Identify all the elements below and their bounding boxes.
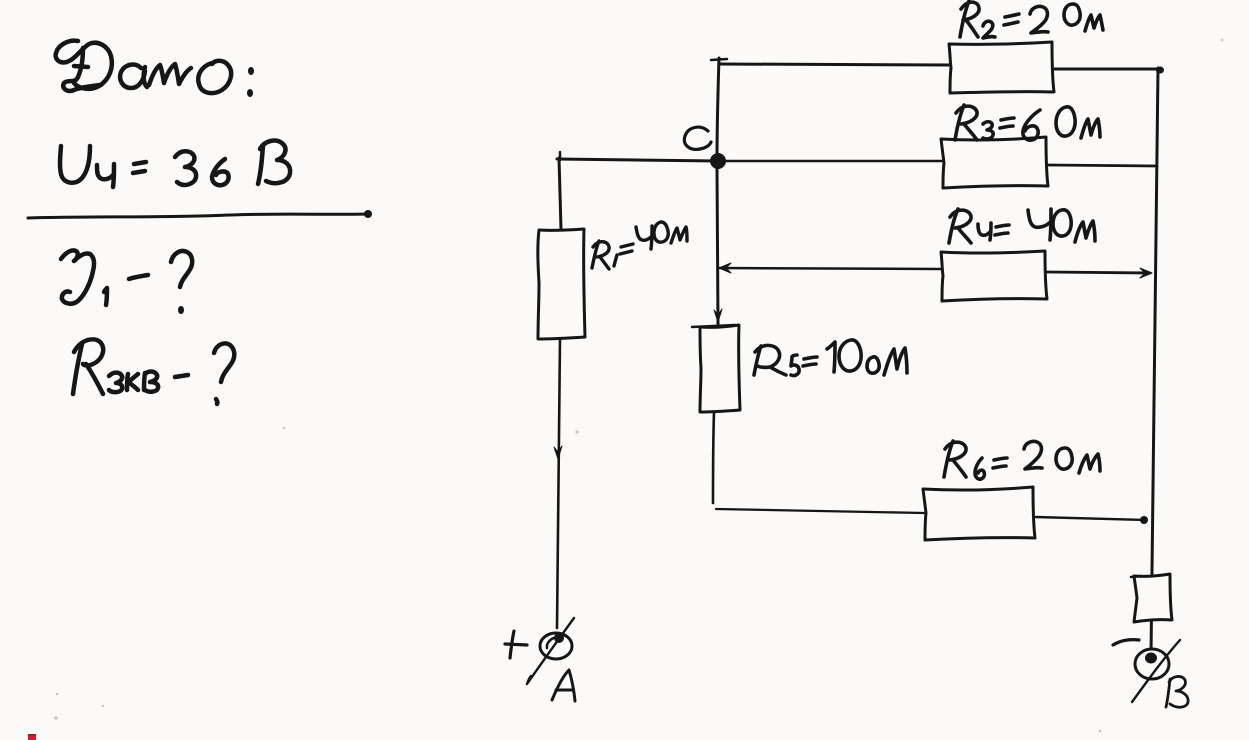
divider line with end dot bbox=[28, 210, 372, 218]
arrowhead at R4 branch left (pointing left) bbox=[719, 263, 731, 273]
resistor R2 box bbox=[949, 42, 1054, 93]
value label R2 = 2 Om bbox=[960, 1, 1103, 38]
unknown I1 - ? bbox=[61, 250, 192, 314]
resistor R5 box bbox=[700, 325, 740, 412]
wire: node C to left corner bbox=[557, 159, 718, 161]
label A bbox=[552, 670, 575, 701]
given-block equation U4 = 36 V bbox=[60, 141, 290, 187]
given-block word "Dano:" bbox=[56, 41, 254, 97]
terminal A slash bbox=[527, 618, 574, 684]
label B bbox=[1166, 676, 1188, 707]
dot at R6 wire right end bbox=[1140, 516, 1148, 524]
wire: R4 right to right rail with arrowhead bbox=[1047, 272, 1150, 273]
value label R3 = 6 Om bbox=[955, 105, 1100, 140]
terminal A circle bbox=[540, 633, 572, 659]
wire: R1 bottom to terminal A bbox=[557, 339, 560, 628]
terminal B slash bbox=[1132, 640, 1180, 702]
arrowhead on middle column (downward) bbox=[714, 309, 722, 322]
wire: R4 branch from middle column bbox=[719, 268, 941, 269]
unknown Rekv - ? bbox=[73, 339, 234, 404]
terminal A center ink blob bbox=[554, 633, 564, 643]
value label R5 = 10 Om bbox=[754, 340, 907, 376]
tick at R5 top bbox=[692, 325, 735, 327]
wire: top horizontal from node-C column to R2 bbox=[719, 64, 949, 65]
wire: R3 branch from node C bbox=[726, 160, 942, 163]
node C junction dot bbox=[710, 153, 726, 169]
arrowhead on A wire (downward) bbox=[554, 446, 562, 459]
wire: node C down the middle column bbox=[717, 169, 718, 324]
wire: top-left vertical (top corner down to node C) bbox=[717, 58, 719, 160]
resistor R4 box bbox=[941, 251, 1047, 301]
value label R1 = 4 Om (rising slope) bbox=[592, 222, 687, 269]
wire: R5 bottom down bbox=[713, 412, 714, 503]
red mark bottom-left bbox=[28, 734, 36, 740]
node C label bbox=[684, 127, 711, 149]
resistor R6 box bbox=[923, 487, 1035, 540]
terminal A inner curl bbox=[547, 637, 557, 648]
small square resistor on right rail bbox=[1134, 574, 1172, 622]
resistor R3 box bbox=[941, 137, 1048, 188]
wire: R3 right to right rail bbox=[1048, 165, 1157, 166]
arrowhead at R4 right (pointing right) bbox=[1140, 268, 1152, 278]
terminal B center ink blob bbox=[1145, 653, 1157, 664]
value label R6 = 2 Om bbox=[944, 441, 1100, 479]
value label R4 = 4 Om bbox=[949, 209, 1095, 243]
tick at small square top-left bbox=[1131, 576, 1141, 577]
wire: corner tick at top-left corner bbox=[711, 59, 727, 60]
plus sign at terminal A bbox=[505, 631, 527, 658]
wire: R2 right to right rail bbox=[1053, 68, 1158, 71]
wire: R6 right to right rail bbox=[1035, 517, 1146, 520]
corner blob top-right bbox=[1156, 67, 1164, 74]
wire: left corner down to R1 bbox=[559, 158, 561, 229]
resistor R1 box bbox=[538, 229, 585, 339]
terminal B circle bbox=[1135, 649, 1169, 679]
wire: R5 column corner to R6 bbox=[716, 509, 924, 513]
wire: right vertical rail bbox=[1151, 68, 1158, 655]
minus sign at terminal B bbox=[1113, 640, 1139, 645]
wire: tick at left corner bbox=[559, 152, 562, 160]
